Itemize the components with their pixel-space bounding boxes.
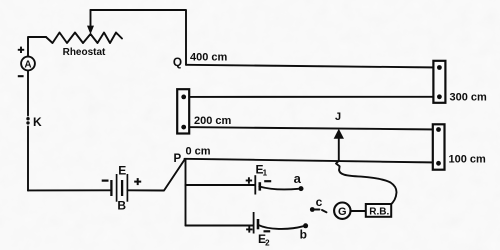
svg-text:J: J (335, 111, 341, 123)
terminal block right upper (433, 61, 445, 103)
svg-text:c: c (316, 195, 323, 209)
wire branch to cell E2 (186, 225, 254, 227)
svg-text:300 cm: 300 cm (450, 92, 488, 104)
label - cell E1 (264, 180, 271, 182)
svg-text:b: b (300, 227, 307, 241)
terminal b dot (303, 223, 308, 228)
svg-text:200 cm: 200 cm (194, 115, 232, 127)
label - battery (102, 180, 109, 182)
rheostat zigzag (46, 33, 122, 44)
label + cell E1 (246, 177, 252, 183)
wire flexible lead from J to RB (339, 170, 396, 205)
svg-text:2: 2 (265, 238, 270, 247)
cell E2 plates (254, 212, 258, 234)
wire bottom to battery B (28, 189, 110, 191)
battery B plates (111, 174, 127, 202)
terminal block right lower (433, 124, 445, 169)
label - ammeter (18, 75, 24, 77)
resistance box R.B (366, 204, 391, 217)
wire 400cm top potentiometer wire (186, 65, 439, 68)
galvanometer G (334, 203, 350, 219)
svg-text:B: B (117, 199, 126, 213)
wire 300cm second potentiometer wire (184, 96, 440, 98)
arrow head rheostat wiper (88, 26, 94, 33)
svg-text:Rheostat: Rheostat (63, 47, 106, 58)
label - cell E2 (264, 230, 271, 232)
svg-text:P: P (173, 153, 181, 165)
svg-text:K: K (33, 115, 42, 129)
wire key K down to bottom (27, 127, 29, 191)
wire cell E1 to terminal a (259, 187, 298, 190)
wire cell E2 to terminal b (258, 225, 304, 229)
wire ammeter to rheostat (28, 37, 46, 57)
terminal c dot (310, 207, 315, 212)
wire tick near c (322, 210, 327, 212)
svg-text:Q: Q (173, 55, 182, 69)
svg-text:1: 1 (263, 168, 268, 177)
svg-text:E: E (118, 164, 126, 178)
wire battery B to P (127, 159, 185, 191)
wire ammeter to key K (27, 70, 29, 115)
wire 100cm bottom potentiometer wire from P (185, 159, 439, 163)
wire G to RB box (350, 210, 365, 212)
svg-text:0 cm: 0 cm (186, 145, 211, 157)
svg-text:G: G (338, 206, 347, 218)
svg-text:R.B.: R.B. (369, 206, 389, 217)
cell E1 plates (255, 175, 259, 194)
ammeter A (21, 57, 35, 71)
svg-text:a: a (294, 171, 302, 186)
label + battery (134, 178, 141, 185)
wire jockey kink below wire (336, 161, 340, 170)
wire top from rheostat wiper to Q vertical (91, 10, 187, 65)
wire jockey J shaft (338, 137, 340, 161)
key K dots (26, 117, 29, 120)
wire branch to cell E1 (186, 184, 256, 186)
wire P down to cells branch (185, 159, 187, 226)
terminal block left (177, 89, 189, 133)
label + cell E2 (246, 226, 252, 232)
wire rheostat wiper arrow shaft (90, 10, 92, 28)
wire 200cm third potentiometer wire (184, 127, 439, 129)
svg-text:A: A (24, 60, 31, 71)
wire terminal c stub (315, 209, 320, 211)
label + ammeter (18, 47, 24, 53)
svg-text:400 cm: 400 cm (190, 51, 228, 63)
svg-text:100 cm: 100 cm (449, 154, 487, 166)
arrow head jockey J (334, 130, 343, 139)
terminal a dot (299, 186, 304, 191)
